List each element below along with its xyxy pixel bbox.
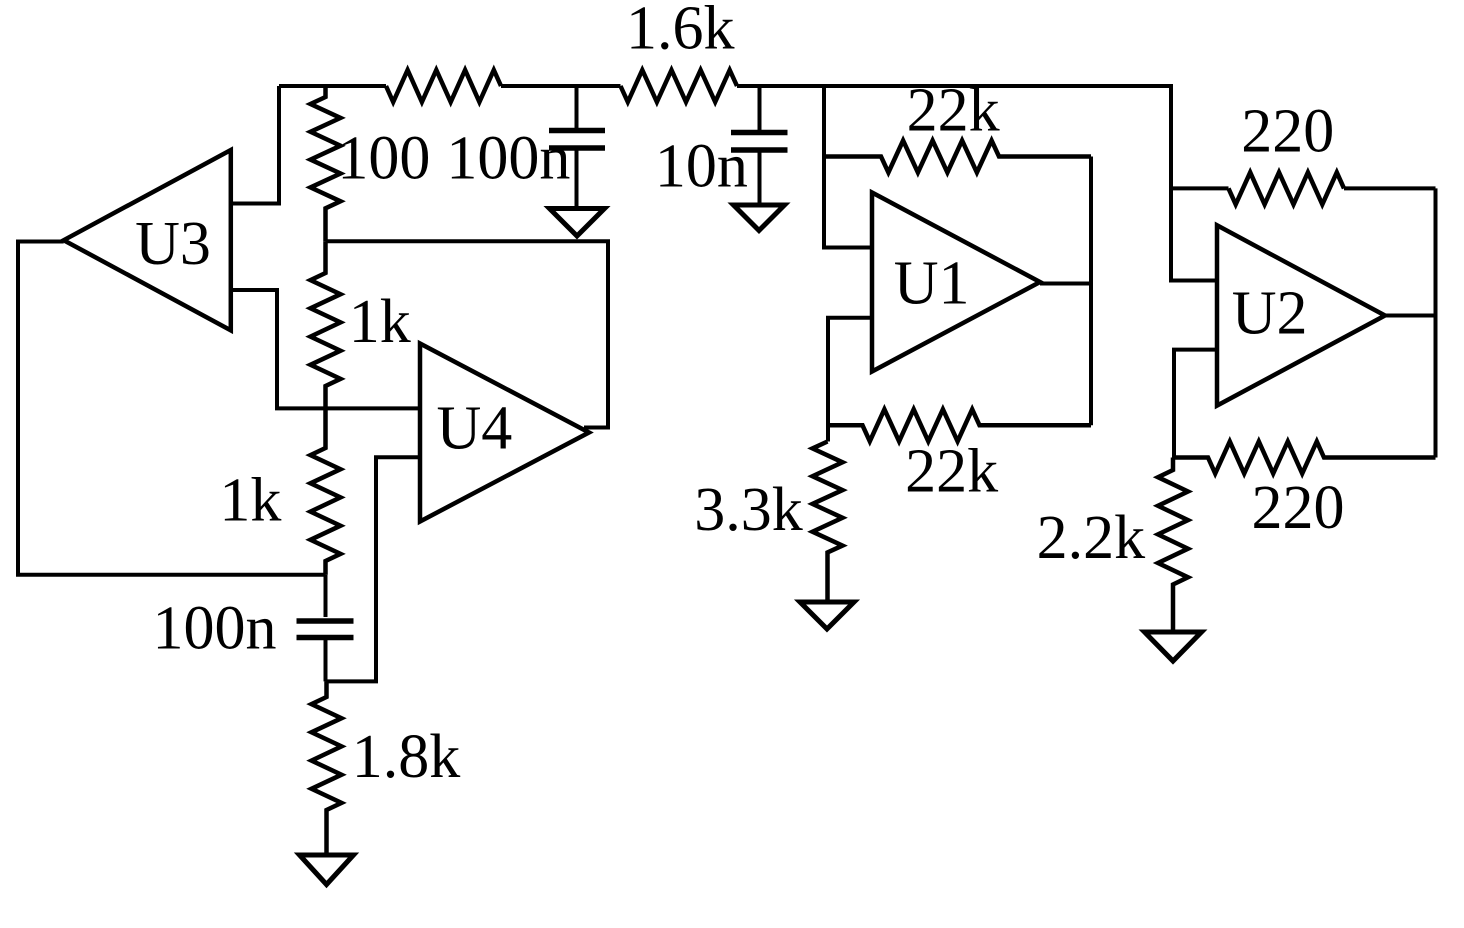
wire: node B to U2 noninverting input: [1171, 186, 1229, 190]
ground (below R12): [1145, 632, 1202, 661]
svg-text:1.8k: 1.8k: [352, 723, 461, 791]
op-amp U1: [872, 193, 1040, 372]
svg-text:100: 100: [337, 125, 430, 193]
svg-text:22k: 22k: [907, 77, 1000, 145]
svg-text:100n: 100n: [153, 595, 277, 663]
svg-text:10n: 10n: [655, 132, 748, 200]
resistor R1 100 (vertical): [311, 86, 341, 241]
svg-text:2.2k: 2.2k: [1037, 504, 1146, 572]
wire: U2 output column: [1385, 188, 1436, 457]
wire: C3 bottom to U4 inverting input: [326, 457, 421, 681]
resistor R2 1k (vertical): [311, 241, 341, 408]
resistor R3 1k (vertical lower): [311, 408, 341, 574]
wire: U2 inverting input branch: [1174, 350, 1217, 458]
resistor R9 3.3k (vertical): [813, 442, 843, 603]
ground (below C1): [550, 209, 605, 237]
svg-text:3.3k: 3.3k: [694, 476, 803, 544]
resistor R8 22k (U1 feedback bottom): [828, 409, 1091, 441]
resistor R12 2.2k (vertical): [1158, 458, 1188, 633]
ground (below C2): [734, 205, 785, 231]
wire: top net to U1 noninverting input: [824, 86, 872, 248]
ground (below R9): [800, 602, 854, 629]
capacitor C1 100n (top): [549, 86, 605, 207]
resistor R4 1.8k (vertical): [312, 681, 342, 855]
svg-text:22k: 22k: [905, 438, 998, 506]
svg-text:1k: 1k: [219, 467, 281, 535]
resistor R5 (top-left, horizontal): [386, 70, 501, 102]
svg-text:U2: U2: [1232, 280, 1308, 348]
svg-text:U3: U3: [135, 210, 211, 278]
svg-text:220: 220: [1252, 474, 1345, 542]
svg-text:U4: U4: [437, 395, 513, 463]
wire: U1 output column: [1040, 157, 1091, 426]
wire: R10 to output column: [1344, 186, 1436, 190]
svg-text:100n: 100n: [446, 125, 570, 193]
resistor R6 1.6k: [621, 70, 738, 102]
svg-text:1.6k: 1.6k: [626, 0, 735, 63]
wire: U3 tip loop (left side): [18, 242, 326, 575]
wire: U3 output pin (top) to top net: [231, 86, 279, 204]
wire: top net horizontal run: [279, 86, 1217, 281]
capacitor C2 10n: [731, 86, 788, 204]
wire: U1 inverting input branch: [828, 318, 872, 442]
wire: node A feedback to U4 output: [326, 241, 609, 427]
capacitor C3 100n (bottom): [297, 575, 354, 682]
svg-text:U1: U1: [894, 250, 970, 318]
svg-text:220: 220: [1241, 98, 1334, 166]
resistor R11 220 (U2 feedback bottom): [1174, 442, 1436, 474]
op-amp U3 (pointing left): [64, 150, 231, 330]
resistor R10 220 (U2 feedback top): [1229, 172, 1345, 204]
op-amp U2: [1217, 225, 1385, 405]
resistor R7 22k (U1 feedback top): [824, 141, 1091, 173]
op-amp U4: [420, 344, 589, 522]
ground (below R4): [300, 855, 354, 885]
svg-text:1k: 1k: [349, 288, 411, 356]
wire: U3 inverting pin to U4 noninverting input: [231, 290, 420, 408]
